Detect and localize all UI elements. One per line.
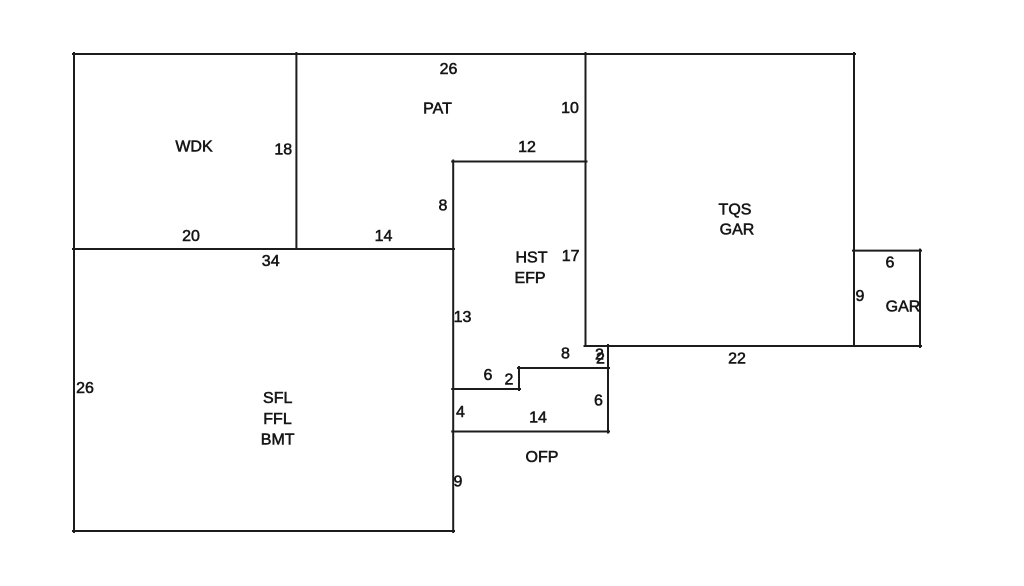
svg-text:2: 2 [505, 372, 514, 389]
svg-text:EFP: EFP [514, 270, 545, 287]
svg-text:10: 10 [561, 100, 579, 117]
svg-text:HST: HST [516, 250, 548, 267]
svg-text:WDK: WDK [175, 139, 213, 156]
svg-text:PAT: PAT [423, 101, 452, 118]
wire WDK/PAT divider wall [295, 53, 297, 249]
svg-text:14: 14 [529, 410, 547, 427]
svg-text:26: 26 [440, 61, 458, 78]
svg-text:OFP: OFP [526, 449, 559, 466]
svg-text:13: 13 [454, 309, 472, 326]
wire 6 step wall [452, 388, 520, 390]
wire 12 wall [452, 161, 586, 163]
svg-text:34: 34 [262, 253, 280, 270]
svg-text:14: 14 [375, 228, 393, 245]
svg-text:8: 8 [561, 346, 570, 363]
svg-text:9: 9 [856, 288, 865, 305]
svg-text:BMT: BMT [261, 432, 295, 449]
wire small GAR top wall [853, 250, 921, 252]
svg-text:TQS: TQS [719, 202, 752, 219]
svg-text:17: 17 [562, 248, 580, 265]
wire left wall [73, 53, 75, 532]
wire GAR right wall [853, 53, 855, 346]
wire 22 wall [585, 345, 922, 347]
svg-text:6: 6 [594, 393, 603, 410]
svg-text:9: 9 [454, 474, 463, 491]
svg-text:18: 18 [274, 142, 292, 159]
wire 34 wall [73, 248, 454, 250]
svg-text:GAR: GAR [720, 222, 755, 239]
svg-text:4: 4 [456, 404, 465, 421]
svg-text:12: 12 [518, 139, 536, 156]
wire 8 step wall [518, 367, 609, 369]
wire 2 step vertical wall [518, 367, 520, 390]
wire 14 wall [452, 431, 609, 433]
svg-text:6: 6 [886, 255, 895, 272]
svg-text:2: 2 [596, 351, 605, 368]
svg-text:GAR: GAR [886, 299, 921, 316]
svg-text:SFL: SFL [263, 390, 292, 407]
svg-text:FFL: FFL [263, 411, 292, 428]
svg-text:22: 22 [728, 351, 746, 368]
svg-text:26: 26 [76, 380, 94, 397]
wire PAT/GAR divider wall [585, 53, 587, 346]
svg-text:6: 6 [484, 367, 493, 384]
wire OFP right wall [607, 345, 609, 433]
svg-text:8: 8 [439, 198, 448, 215]
wire center vertical wall [452, 161, 454, 533]
wire bottom wall [73, 530, 454, 532]
wire top wall [73, 53, 855, 55]
wire small GAR right wall [919, 250, 921, 347]
svg-text:20: 20 [182, 228, 200, 245]
